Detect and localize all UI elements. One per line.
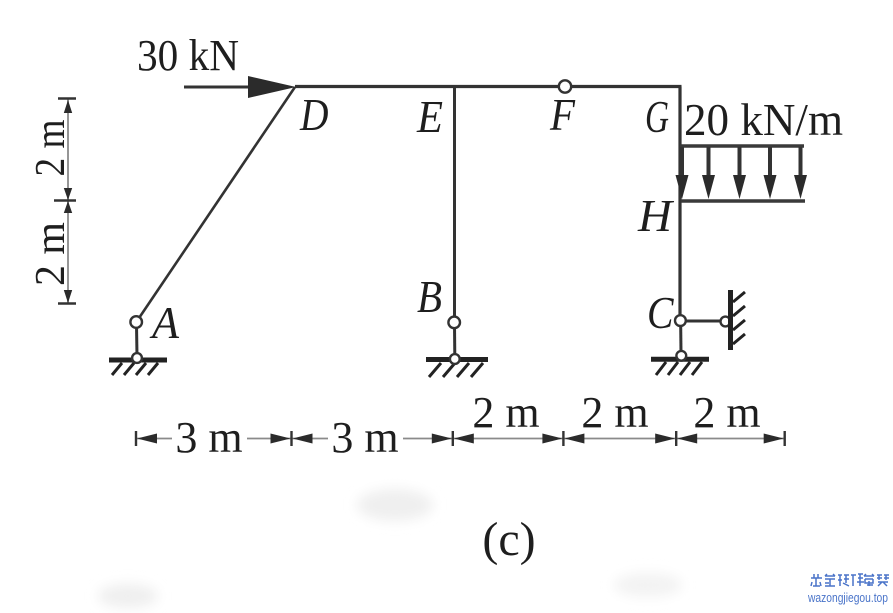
svg-text:F: F: [549, 89, 576, 140]
support C horizontal link to wall: [686, 320, 721, 323]
svg-text:30 kN: 30 kN: [137, 31, 239, 80]
svg-text:3 m: 3 m: [175, 413, 242, 462]
svg-text:G: G: [645, 91, 669, 142]
svg-text:C: C: [647, 287, 675, 338]
svg-text:3 m: 3 m: [331, 413, 398, 462]
dimension ticks: [136, 431, 785, 446]
support B (pendulum link): [453, 325, 456, 356]
member G-H-C: [678, 87, 681, 316]
watermark chinese glyph blocks: [811, 574, 889, 586]
svg-text:H: H: [637, 190, 675, 241]
support C vertical link: [679, 326, 682, 353]
support A (pendulum link): [135, 325, 139, 356]
svg-text:2 m: 2 m: [28, 119, 74, 176]
dimension arrowheads: [137, 434, 784, 444]
svg-text:A: A: [149, 297, 180, 348]
svg-text:D: D: [299, 89, 328, 140]
svg-text:wazongjiegou.top: wazongjiegou.top: [807, 590, 888, 605]
bottom dimension line: [136, 438, 785, 440]
svg-text:2 m: 2 m: [693, 388, 760, 437]
load arrow 30 kN: [184, 86, 252, 89]
svg-text:20 kN/m: 20 kN/m: [684, 94, 843, 145]
svg-text:2 m: 2 m: [581, 388, 648, 437]
left dimension line: [67, 99, 69, 304]
svg-text:B: B: [417, 271, 442, 322]
svg-text:E: E: [416, 91, 443, 142]
svg-text:(c): (c): [482, 513, 535, 566]
hinge F: [559, 80, 571, 92]
member E-B: [453, 87, 456, 316]
member D-A (inclined): [137, 87, 295, 321]
svg-text:2 m: 2 m: [472, 388, 539, 437]
svg-text:2 m: 2 m: [28, 222, 74, 286]
beam D-E-F-G: [295, 85, 682, 88]
distributed load block: [680, 146, 805, 201]
